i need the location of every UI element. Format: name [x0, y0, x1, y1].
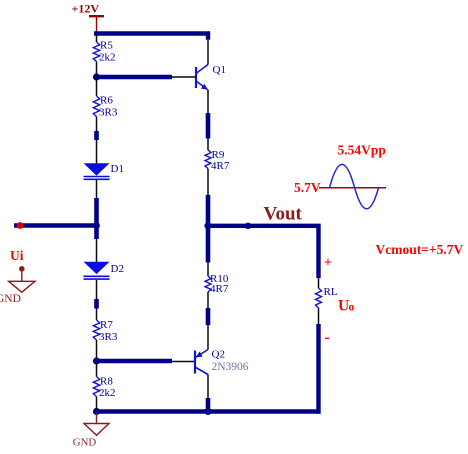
wire base node to R6	[96, 77, 98, 96]
resistor R8	[93, 377, 99, 397]
wire R6 to D1 (with stub)	[96, 117, 98, 164]
wire RL to ground rail	[316, 324, 320, 414]
svg-text:o: o	[349, 302, 355, 314]
wire Q2 base lead (thin)	[172, 361, 195, 363]
diode D2	[84, 262, 110, 279]
svg-text:2k2: 2k2	[99, 52, 116, 64]
ground GND (supply)	[84, 414, 109, 436]
node input junction	[93, 222, 100, 229]
svg-text:+: +	[324, 256, 332, 271]
wire Vout node to R10	[207, 226, 209, 276]
wire Q1 base lead (thin)	[172, 76, 196, 78]
svg-text:2k2: 2k2	[99, 387, 116, 399]
svg-text:R5: R5	[100, 40, 113, 52]
wire R10 to Q2 emitter (with stub)	[207, 292, 209, 350]
node Vout label attach dot	[245, 223, 251, 229]
wire input node to D2	[96, 239, 98, 262]
node ground rail left junction	[93, 408, 100, 415]
wire R7 to Q2 base node	[96, 340, 98, 361]
wire Q1 collector lead	[207, 40, 209, 65]
wire D2 to R7 (with stub)	[96, 280, 98, 320]
wire Q2 base node to R8	[96, 361, 98, 377]
node Vout junction	[204, 222, 211, 229]
svg-text:+12V: +12V	[72, 2, 100, 16]
svg-text:5.54Vpp: 5.54Vpp	[338, 143, 386, 158]
wire R5 to base node	[96, 62, 98, 78]
svg-text:R7: R7	[100, 319, 113, 331]
svg-text:D1: D1	[111, 163, 124, 175]
svg-text:Q1: Q1	[213, 64, 226, 76]
node ground rail Q2 junction	[204, 408, 211, 415]
svg-text:GND: GND	[73, 436, 97, 448]
waveform sine	[330, 164, 379, 209]
svg-text:D2: D2	[111, 263, 124, 275]
wire ground rail	[97, 409, 319, 413]
svg-text:R8: R8	[100, 376, 113, 388]
resistor R6	[93, 96, 99, 117]
wire +12V rail to Q1 collector	[94, 34, 208, 40]
node R7/R8/Q2-base junction	[93, 357, 100, 364]
svg-text:GND: GND	[0, 293, 21, 305]
svg-text:4R7: 4R7	[210, 283, 229, 295]
wire R9 to Vout node	[207, 169, 209, 227]
svg-text:Q2: Q2	[212, 349, 225, 361]
resistor R9	[205, 150, 211, 169]
wire Q1 emitter to R9 (with stub)	[207, 90, 209, 151]
svg-text:RL: RL	[324, 286, 338, 298]
resistor R7	[93, 320, 99, 340]
svg-text:4R7: 4R7	[211, 160, 230, 172]
wire Vout to RL	[208, 226, 319, 278]
transistor Q2	[195, 350, 208, 375]
svg-text:5.7V: 5.7V	[294, 180, 321, 195]
waveform midline 5.7V	[319, 187, 386, 189]
input terminal (red dot)	[17, 222, 24, 229]
ground GND (input)	[9, 266, 35, 292]
svg-text:-: -	[325, 329, 330, 346]
svg-text:3R3: 3R3	[99, 331, 118, 343]
wire input Ui to D1/D2 node	[14, 223, 97, 227]
diode D1	[84, 163, 110, 179]
svg-text:3R3: 3R3	[99, 107, 118, 119]
power port +12V	[89, 16, 104, 33]
wire D1 to input node	[96, 180, 98, 239]
transistor Q1	[196, 65, 208, 90]
wire Q2 collector to ground rail (with stub)	[207, 375, 209, 410]
svg-text:Vcmout=+5.7V: Vcmout=+5.7V	[376, 242, 464, 257]
resistor R10	[205, 276, 211, 292]
svg-text:2N3906: 2N3906	[212, 361, 249, 373]
svg-text:R6: R6	[100, 95, 113, 107]
resistor R5	[93, 42, 99, 62]
wire rail to R5	[96, 35, 98, 42]
wire R8 to ground rail	[96, 397, 98, 412]
svg-text:Ui: Ui	[10, 248, 24, 263]
wire Q2 base (thick)	[97, 359, 173, 363]
svg-text:Vout: Vout	[264, 204, 303, 225]
wire Q1 base (thick)	[97, 75, 173, 79]
node R5/R6/Q1-base junction	[93, 73, 100, 80]
resistor RL	[316, 278, 322, 325]
